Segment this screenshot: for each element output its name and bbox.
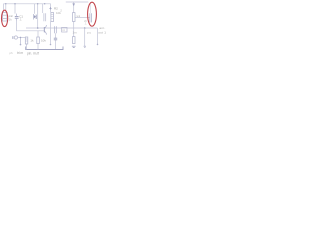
wire drop to C2 [42,4,44,13]
diode D1 [33,14,35,20]
inductor L1 [73,13,76,22]
capacitor C5 vertical pair [55,26,57,33]
wire horizontal comp to R5 [18,37,26,39]
svg-text:p.u: p.u [87,30,92,34]
resistor R6 [37,37,40,44]
svg-text:out 1: out 1 [98,31,106,35]
wire out corner down [97,28,99,44]
battery/cell icon left lower [12,36,14,39]
svg-text:1k: 1k [9,17,13,21]
wire C3 column [55,33,57,38]
node junction on rail at mic [5,3,6,4]
wire R2 column down [50,22,52,45]
wire right rail [66,1,89,3]
wire long drop x37.7 rail to mid bus [37,4,39,28]
ground for R7 [72,46,76,47]
ground blob x84.7 [84,46,86,47]
node junction bus x37.7 [37,27,39,29]
node dot out column bottom [97,44,99,46]
wire R6 bottom [37,44,39,50]
wire R6 top to lower bus [37,31,39,37]
node dot lower x20.5 [20,37,21,38]
resistor R5 [25,37,28,44]
wire top power rail [4,4,51,13]
svg-text:L1: L1 [77,14,81,18]
wire R5 bottom [26,44,28,50]
svg-text:1m: 1m [73,30,78,34]
wire antenna feed drop [73,2,75,13]
capacitor C2 [44,13,46,21]
resistor R2 [51,13,54,22]
svg-text:tri m: tri m [17,51,24,55]
svg-text:R2: R2 [54,6,58,10]
capacitor C3 plates [54,38,57,40]
wire L1 bottom to bus [73,22,75,37]
transistor Q1 [43,27,45,32]
node junction on rail at x37.7 [37,3,38,4]
wire ground rail [26,47,63,50]
wire drop from node x20.5 [20,38,22,45]
wire mic second lead [5,4,7,12]
wire collector link to trimmer [75,17,90,19]
node junction bus x84.7 [84,27,86,29]
svg-text:xt: xt [62,28,64,32]
wire C3 bottom to ground rail [55,40,57,50]
node dot R2 column bottom [50,44,52,46]
wire drop to D1 [34,4,36,14]
node junction on rail at x44.7 [44,3,45,4]
capacitor C1 [15,16,19,18]
wire x84.7 bus to ground [84,28,86,46]
coupling box U1 [62,27,67,32]
node plus junction near rail end [49,7,51,9]
wire trimmer top stub [90,2,92,13]
resistor R7 right column [73,37,76,44]
antenna arrow [72,3,75,6]
svg-text:ph: ph [10,51,14,55]
annotation red ellipse left [2,10,8,26]
wire drop to R1/C1 column [14,4,16,14]
node junction on rail at x15 [14,3,15,4]
annotation red ellipse right [88,2,97,26]
svg-text:10k: 10k [41,39,46,43]
svg-text:ant.: ant. [99,26,105,30]
svg-text:1k: 1k [30,39,34,43]
wire mid bus [26,27,98,29]
wire C1 bottom to lower bus [17,21,44,31]
svg-text:.1: .1 [19,18,22,22]
trimmer capacitor C6 [90,13,92,22]
svg-text:pin. im.tf: pin. im.tf [27,51,39,55]
microphone MIC1 body [3,13,7,21]
text label specks [9,6,107,55]
